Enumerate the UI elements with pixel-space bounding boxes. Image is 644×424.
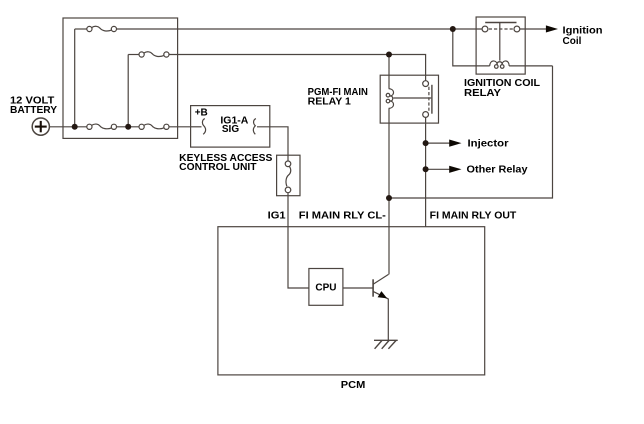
svg-text:Injector: Injector [468,138,509,149]
svg-text:Other Relay: Other Relay [467,165,528,176]
svg-text:RELAY: RELAY [464,88,501,99]
svg-text:FI MAIN RLY CL-: FI MAIN RLY CL- [299,211,386,222]
svg-text:RELAY 1: RELAY 1 [308,96,352,107]
svg-text:FI MAIN RLY OUT: FI MAIN RLY OUT [430,211,517,222]
svg-text:IG1: IG1 [268,211,286,222]
svg-text:SIG: SIG [222,124,239,135]
svg-text:CONTROL UNIT: CONTROL UNIT [179,162,256,173]
svg-text:+B: +B [195,108,208,119]
svg-text:Ignition: Ignition [563,25,603,36]
svg-text:BATTERY: BATTERY [10,105,57,116]
svg-text:CPU: CPU [315,282,336,293]
svg-text:PCM: PCM [341,380,366,391]
svg-text:Coil: Coil [563,36,582,47]
